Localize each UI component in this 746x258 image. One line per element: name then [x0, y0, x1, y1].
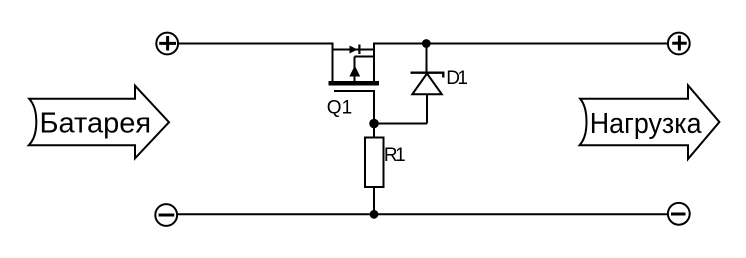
svg-text:Q1: Q1	[327, 97, 352, 118]
svg-text:D1: D1	[446, 68, 467, 89]
svg-text:Нагрузка: Нагрузка	[590, 108, 703, 140]
svg-text:Батарея: Батарея	[40, 108, 152, 140]
svg-text:R1: R1	[384, 145, 405, 166]
